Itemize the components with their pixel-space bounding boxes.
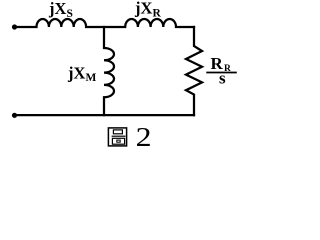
svg-text:S: S	[67, 8, 73, 20]
svg-text:R: R	[153, 7, 162, 19]
svg-text:jX: jX	[48, 0, 66, 18]
svg-text:2: 2	[136, 122, 152, 153]
svg-text:M: M	[86, 72, 97, 84]
svg-text:jX: jX	[134, 0, 152, 18]
svg-text:s: s	[219, 69, 226, 88]
svg-text:jX: jX	[67, 64, 85, 83]
